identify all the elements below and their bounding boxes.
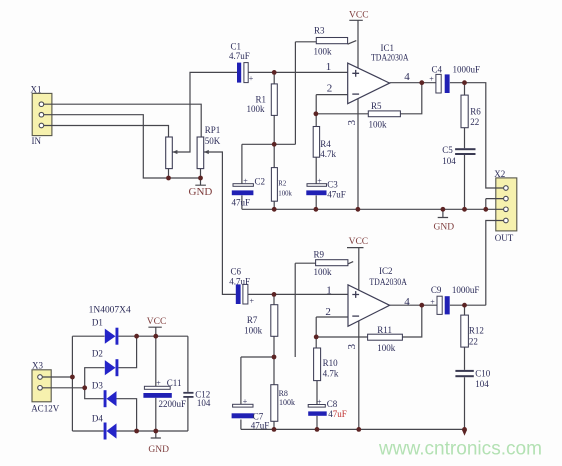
svg-text:1000uF: 1000uF [453,64,481,74]
svg-text:+: + [317,176,322,185]
svg-text:X3: X3 [32,360,43,370]
svg-text:R11: R11 [377,325,392,335]
svg-text:4: 4 [404,296,410,308]
svg-text:4: 4 [404,71,410,83]
svg-text:www.cntronics.com: www.cntronics.com [378,439,542,460]
svg-text:X1: X1 [31,85,42,95]
svg-text:C2: C2 [255,176,266,186]
svg-text:100k: 100k [369,119,388,129]
svg-text:4.7k: 4.7k [320,149,336,159]
svg-text:104: 104 [475,379,489,389]
svg-text:VCC: VCC [349,237,369,247]
svg-text:+: + [156,379,161,388]
svg-text:R1: R1 [256,94,267,104]
svg-text:R9: R9 [314,249,325,259]
svg-text:VCC: VCC [349,10,369,20]
svg-text:TDA2030A: TDA2030A [371,52,409,62]
svg-text:100k: 100k [314,267,333,277]
svg-text:100k: 100k [278,191,292,198]
svg-text:C4: C4 [432,64,443,74]
svg-text:4.7uF: 4.7uF [229,51,250,61]
svg-text:+: + [430,297,435,306]
svg-text:R6: R6 [470,106,481,116]
svg-text:R10: R10 [323,358,339,368]
svg-text:R4: R4 [320,139,331,149]
svg-text:+: + [429,74,434,83]
svg-text:X2: X2 [494,169,505,179]
svg-text:100k: 100k [279,398,295,407]
svg-text:C11: C11 [167,378,182,388]
svg-text:2: 2 [327,82,333,94]
svg-text:2: 2 [325,306,331,318]
svg-text:D1: D1 [92,317,103,327]
svg-text:R7: R7 [247,315,258,325]
svg-text:47uF: 47uF [327,189,346,199]
svg-text:C5: C5 [442,145,453,155]
svg-text:1N4007X4: 1N4007X4 [89,304,132,314]
svg-text:100k: 100k [314,47,333,57]
svg-text:104: 104 [442,156,456,166]
svg-text:D2: D2 [92,348,103,358]
svg-text:C3: C3 [327,179,338,189]
svg-text:AC12V: AC12V [31,403,60,413]
svg-text:47uF: 47uF [251,420,270,430]
svg-text:VCC: VCC [147,317,167,327]
svg-text:4.7uF: 4.7uF [229,276,250,286]
svg-text:RP1: RP1 [205,125,221,135]
svg-text:3: 3 [346,344,358,350]
svg-text:104: 104 [197,398,211,408]
svg-text:1000uF: 1000uF [452,285,480,295]
svg-text:C8: C8 [327,399,338,409]
svg-text:22: 22 [469,336,478,346]
svg-text:C6: C6 [231,266,242,276]
svg-text:+: + [243,176,248,185]
svg-text:D4: D4 [92,413,103,423]
svg-text:3: 3 [346,120,358,126]
svg-text:+: + [250,296,255,305]
svg-text:100k: 100k [247,104,266,114]
svg-text:TDA2030A: TDA2030A [369,277,407,287]
svg-text:R5: R5 [371,101,382,111]
svg-text:2200uF: 2200uF [159,399,187,409]
svg-text:IN: IN [32,136,42,146]
svg-text:C1: C1 [231,42,242,52]
svg-text:OUT: OUT [495,233,514,243]
svg-text:GND: GND [148,445,169,455]
svg-text:C10: C10 [475,368,491,378]
svg-text:+: + [243,397,248,406]
svg-text:100k: 100k [244,325,263,335]
svg-text:C9: C9 [431,285,442,295]
svg-text:1: 1 [326,61,332,73]
svg-text:IC2: IC2 [379,266,393,276]
svg-text:R12: R12 [469,325,484,335]
svg-text:D3: D3 [92,380,103,390]
svg-text:R2: R2 [278,180,287,187]
svg-text:100k: 100k [377,343,396,353]
svg-text:22: 22 [470,117,479,127]
svg-text:47uF: 47uF [232,198,251,208]
svg-text:50K: 50K [205,136,221,146]
svg-text:7uF: 7uF [333,409,347,419]
svg-text:+: + [317,397,322,406]
svg-text:R3: R3 [314,25,325,35]
svg-text:4.7k: 4.7k [323,368,339,378]
svg-text:+: + [249,74,254,83]
svg-text:R8: R8 [279,389,288,398]
svg-text:1: 1 [326,285,332,297]
svg-text:GND: GND [189,186,213,198]
svg-text:GND: GND [434,222,455,232]
